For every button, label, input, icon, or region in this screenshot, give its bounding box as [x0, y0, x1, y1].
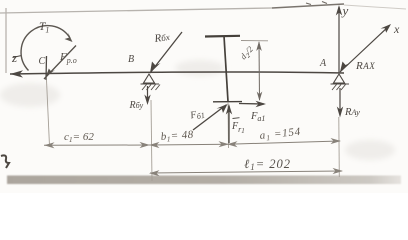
- svg-text:RAy: RAy: [344, 107, 360, 118]
- force Fp.o: [44, 46, 76, 80]
- wire extension below B: [151, 100, 152, 181]
- x axis: [340, 26, 389, 72]
- svg-text:d2/2: d2/2: [238, 44, 257, 63]
- pen marks top edge: [306, 2, 327, 5]
- support A: [334, 74, 345, 83]
- wire extension below C: [47, 80, 50, 146]
- scan bottom bar: [7, 176, 401, 185]
- scan border left line: [5, 8, 7, 73]
- gear wheel symbol: [205, 35, 240, 38]
- dimension l1=202: [150, 171, 342, 173]
- svg-text:T1: T1: [39, 21, 49, 35]
- wire beam axis line: [10, 72, 344, 74]
- svg-text:a1 =154: a1 =154: [259, 126, 302, 143]
- svg-text:b1= 48: b1= 48: [160, 129, 194, 144]
- svg-text:Fa1: Fa1: [250, 111, 265, 123]
- svg-text:x: x: [393, 22, 400, 36]
- svg-text:y: y: [341, 3, 349, 18]
- force Fa1: [239, 103, 264, 106]
- svg-text:RAX: RAX: [355, 60, 375, 72]
- support B: [144, 74, 155, 83]
- svg-text:Rбy: Rбy: [129, 100, 144, 111]
- force Fr1: [228, 106, 230, 143]
- dimension a1=154: [228, 141, 340, 144]
- svg-text:c1= 62: c1= 62: [64, 131, 94, 144]
- force RAX arrowhead into A: [340, 62, 350, 73]
- svg-text:A: A: [319, 58, 327, 69]
- z axis arrowhead: [10, 70, 23, 77]
- force RAy: [339, 88, 341, 114]
- scan background blotches: [0, 60, 395, 160]
- force Fb1: [193, 105, 226, 130]
- svg-text:C: C: [39, 56, 46, 67]
- svg-text:Fr1: Fr1: [231, 121, 245, 135]
- node C tick: [45, 56, 48, 80]
- dimension d2/2: [241, 40, 268, 42]
- svg-text:B: B: [128, 54, 134, 65]
- force RbX: [150, 32, 182, 73]
- dimension b1=48: [150, 143, 228, 146]
- wire extension below gear: [227, 102, 230, 148]
- scan border top line: [0, 4, 406, 13]
- y axis: [338, 7, 340, 73]
- page-edge mark 3: [1, 155, 9, 168]
- svg-text:Fб1: Fб1: [188, 108, 205, 123]
- dimension c1=62: [44, 144, 150, 146]
- wire extension below A: [338, 117, 341, 177]
- torque T1 arc: [21, 26, 70, 71]
- svg-text:Rбx: Rбx: [153, 31, 171, 45]
- svg-text:ℓ1= 202: ℓ1= 202: [244, 157, 291, 172]
